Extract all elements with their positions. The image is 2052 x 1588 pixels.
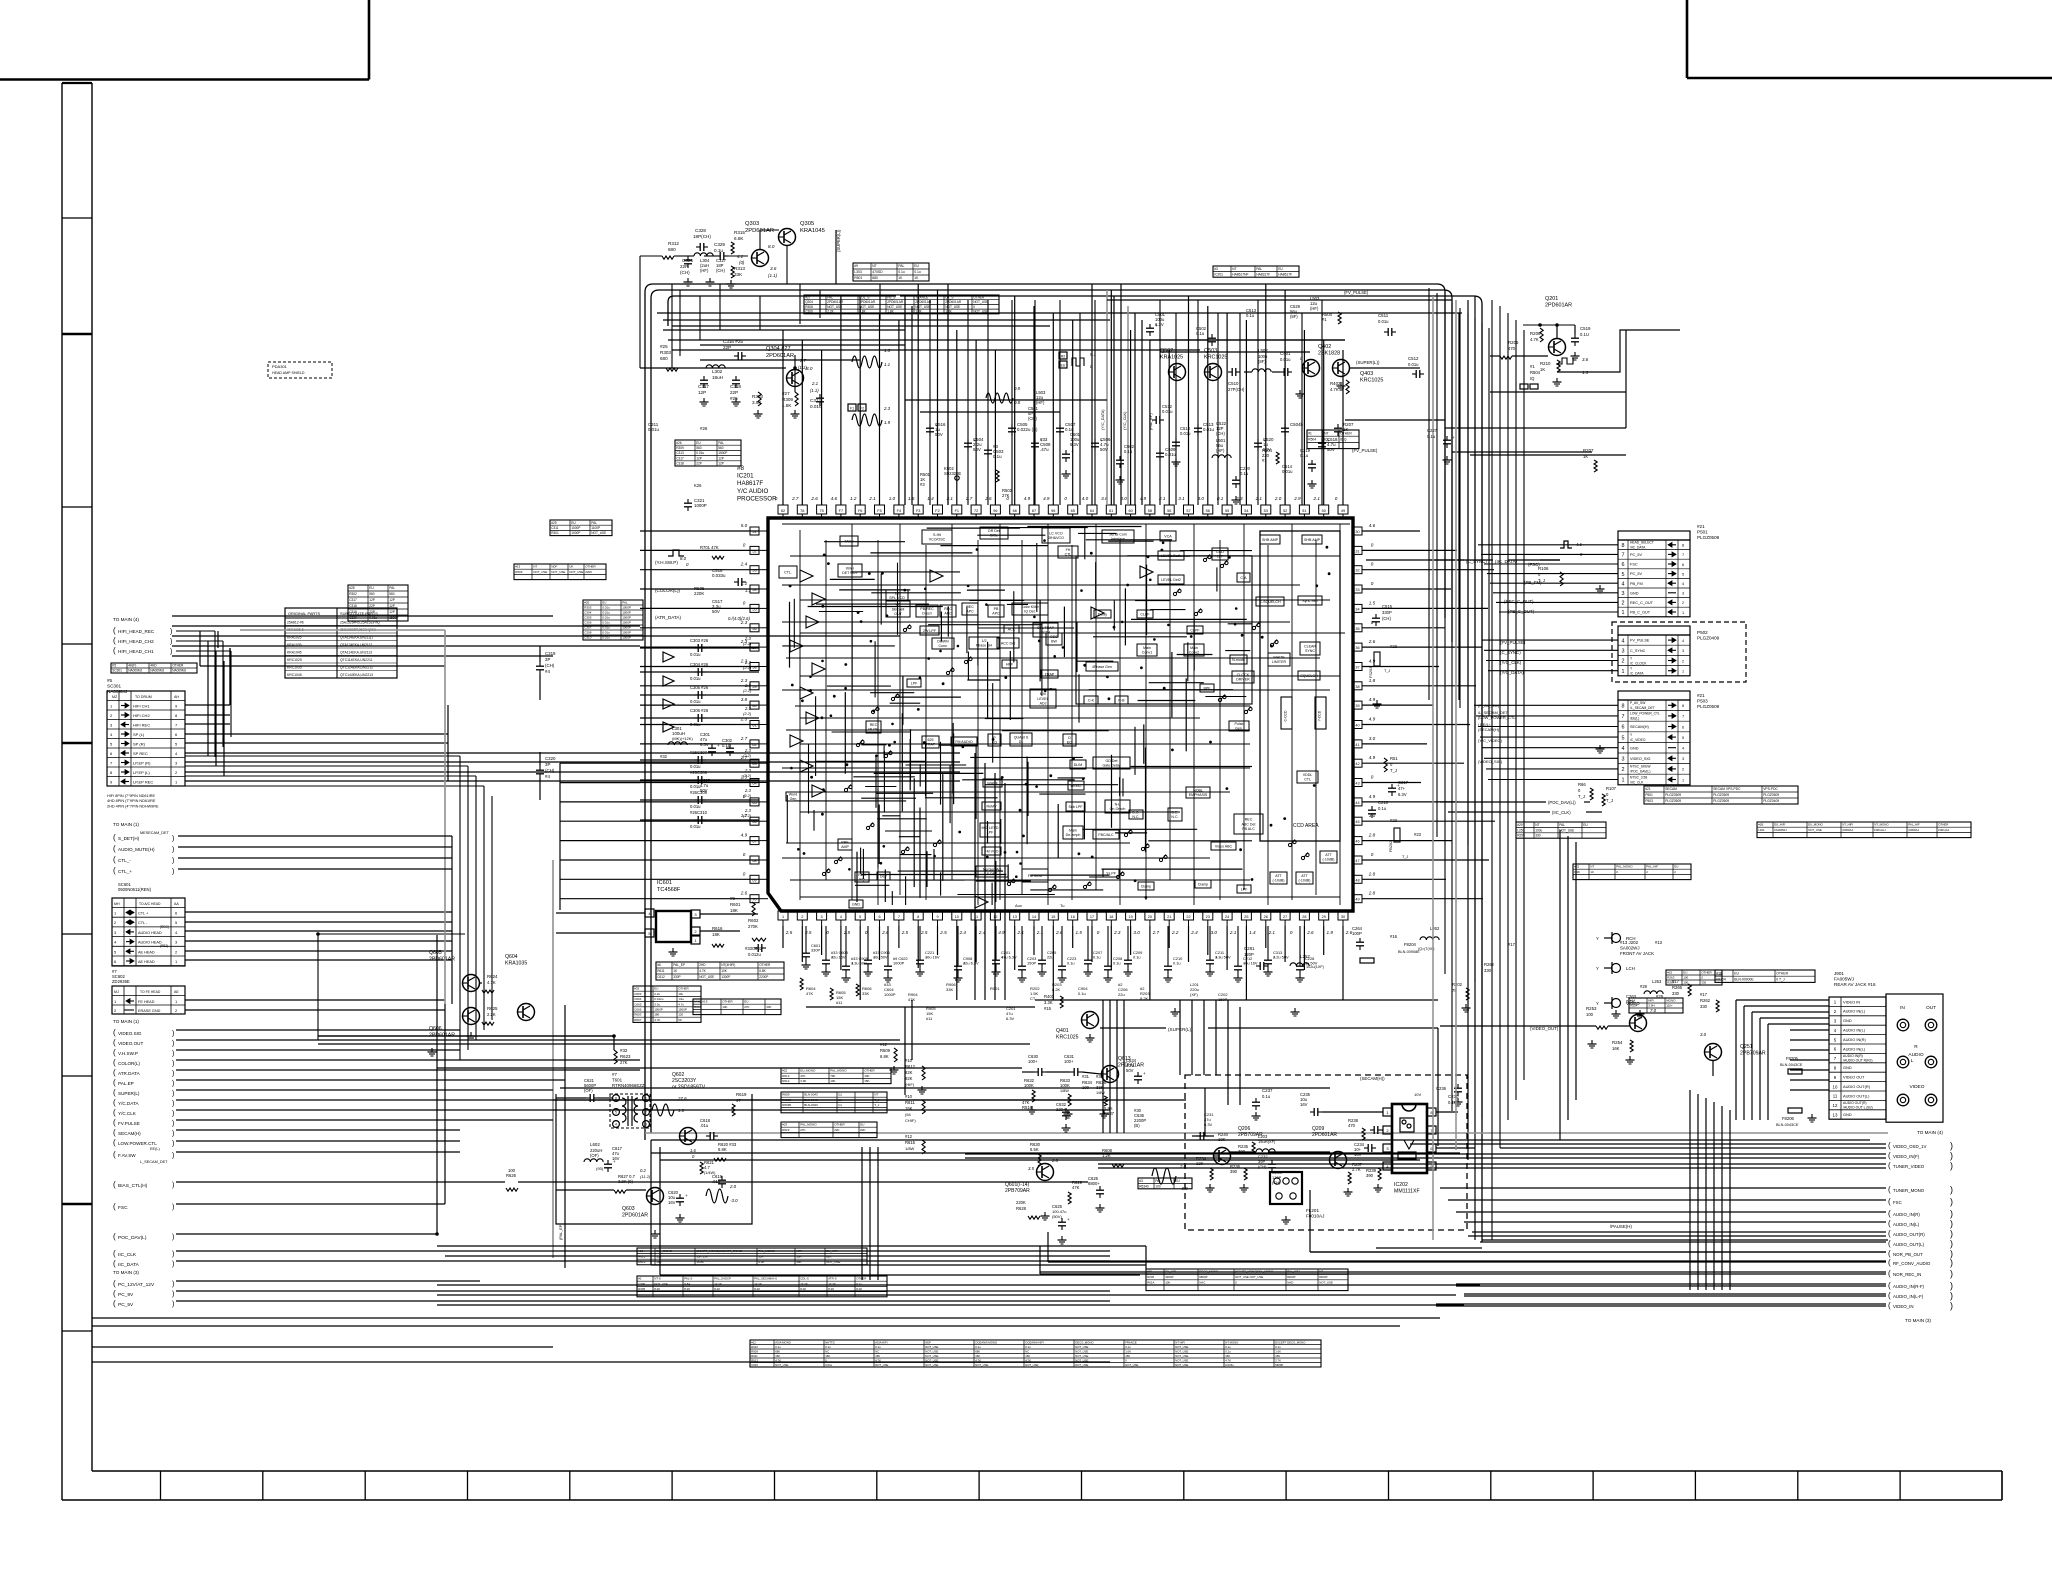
svg-text:C328: C328 [695, 228, 706, 233]
svg-text:#29: #29 [1656, 994, 1664, 999]
svg-text:100+: 100+ [1028, 1059, 1038, 1064]
svg-text:(: ( [113, 1078, 116, 1087]
svg-text:(FV_PULSE): (FV_PULSE) [1500, 640, 1526, 645]
svg-text:3.8: 3.8 [741, 697, 748, 702]
svg-text:R612: R612 [638, 1260, 646, 1264]
svg-text:15K: 15K [1275, 1354, 1280, 1358]
svg-text:2: 2 [1682, 601, 1684, 605]
table #1B wide right [1757, 822, 1971, 838]
svg-text:): ) [172, 1111, 174, 1118]
svg-text:1/8W: 1/8W [1096, 1091, 1105, 1095]
svg-text:#26: #26 [700, 426, 708, 431]
internal amplifiers [790, 566, 1153, 908]
svg-text:LP,EP (R): LP,EP (R) [133, 761, 151, 766]
svg-text:KRC1045: KRC1045 [287, 673, 302, 677]
svg-text:15K: 15K [905, 1106, 913, 1111]
svg-text:KRA1025: KRA1025 [1160, 355, 1183, 361]
svg-text:(CH): (CH) [545, 768, 555, 773]
svg-text:(1.1): (1.1) [768, 273, 778, 278]
svg-text:22u: 22u [1047, 955, 1054, 960]
svg-text:NOT_USE NOT_USE: NOT_USE NOT_USE [1235, 1275, 1263, 1279]
svg-text:100: 100 [1683, 981, 1688, 985]
svg-text:(: ( [1888, 1141, 1891, 1150]
svg-text:56: 56 [1206, 509, 1210, 513]
svg-text:OTHER: OTHER [678, 987, 689, 991]
svg-text:3.3K: 3.3K [758, 1260, 764, 1264]
transistor Q602 [652, 1072, 747, 1203]
svg-text:19: 19 [1128, 915, 1132, 919]
svg-text:REC: REC [870, 723, 878, 727]
svg-text:#32: #32 [620, 1048, 628, 1053]
svg-text:(OF): (OF) [584, 1088, 593, 1093]
svg-text:8.0: 8.0 [680, 556, 687, 561]
svg-text:P501: P501 [1645, 793, 1653, 797]
svg-text:): ) [172, 1182, 174, 1189]
svg-text:3: 3 [1622, 591, 1625, 597]
svg-text:HIFI 8PIN (7"9PIN ND61IRE: HIFI 8PIN (7"9PIN ND61IRE [107, 794, 155, 798]
svg-text:TUNER_VIDEO: TUNER_VIDEO [1893, 1164, 1925, 1169]
svg-text:R504: R504 [1308, 438, 1316, 442]
svg-text:CHIF): CHIF) [905, 1118, 916, 1123]
svg-text:PC_5V: PC_5V [1630, 572, 1642, 576]
svg-text:OTHER: OTHER [834, 1123, 845, 1127]
svg-text:1.8K: 1.8K [945, 310, 952, 314]
svg-text:(: ( [113, 1038, 116, 1047]
svg-text:OUT: OUT [894, 612, 902, 616]
svg-text:#26C310: #26C310 [690, 810, 708, 815]
svg-text:2.1: 2.1 [1229, 930, 1237, 935]
wires from IC left pins [640, 531, 759, 899]
svg-text:NDF: NDF [551, 565, 557, 569]
svg-text:): ) [172, 1291, 174, 1298]
svg-text:0.01u: 0.01u [1165, 452, 1177, 457]
svg-text:(: ( [1888, 1209, 1891, 1218]
svg-text:R613: R613 [782, 1074, 790, 1078]
svg-text:7: 7 [1682, 553, 1684, 557]
table #26 values [675, 440, 741, 466]
svg-text:(PAL_EP): (PAL_EP) [559, 1223, 563, 1240]
svg-text:47K: 47K [806, 991, 813, 996]
svg-text:NOR_PB_OUT: NOR_PB_OUT [1893, 1252, 1923, 1257]
svg-text:3.3u 50V: 3.3u 50V [1215, 955, 1231, 960]
connector SC301 MZ/TO DRUM table [107, 691, 185, 786]
TO MAIN (1) signal list [113, 1019, 174, 1164]
svg-text:76: 76 [800, 509, 804, 513]
svg-text:#21: #21 [1697, 693, 1705, 698]
option table #12 bottom [750, 1340, 1321, 1367]
svg-text:1000P: 1000P [893, 961, 905, 966]
svg-text:Q604: Q604 [505, 954, 518, 960]
svg-text:): ) [1950, 1209, 1953, 1219]
svg-text:LP,EP (L): LP,EP (L) [133, 770, 150, 775]
svg-text:C511: C511 [1378, 313, 1389, 318]
svg-text:0: 0 [743, 542, 746, 547]
svg-text:79K: 79K [830, 1074, 835, 1078]
svg-text:S02320E: S02320E [944, 471, 961, 476]
svg-text:TO FE HEAD: TO FE HEAD [140, 990, 161, 994]
svg-text:TO MAIN (3): TO MAIN (3) [1905, 1318, 1931, 1323]
svg-text:NA009MJ: NA009MJ [150, 669, 164, 673]
svg-text:C305: C305 [584, 616, 592, 620]
svg-text:1: 1 [782, 915, 784, 919]
lower-left power connectors [113, 1180, 174, 1308]
svg-text:(1): (1) [838, 1103, 842, 1107]
svg-text:33: 33 [1355, 588, 1359, 592]
svg-text:(: ( [1888, 1258, 1891, 1267]
svg-text:(-10dB): (-10dB) [1273, 879, 1285, 883]
svg-text:HA8617NF: HA8617NF [1232, 273, 1248, 277]
svg-text:8.0: 8.0 [806, 366, 813, 371]
svg-text:F8206: F8206 [1782, 1116, 1795, 1121]
svg-text:NOT_USE: NOT_USE [1025, 1363, 1038, 1367]
svg-text:40: 40 [1355, 724, 1359, 728]
svg-text:102u(1XF): 102u(1XF) [1306, 965, 1325, 969]
svg-text:0500N0611(REN): 0500N0611(REN) [118, 887, 152, 892]
svg-text:): ) [1950, 1258, 1953, 1268]
svg-text:3: 3 [1622, 757, 1625, 763]
R624 R625 [316, 932, 517, 1056]
svg-text:OTHER: OTHER [759, 963, 771, 967]
svg-text:0.1u: 0.1u [1124, 449, 1133, 454]
svg-text:0.1u: 0.1u [1378, 806, 1387, 811]
svg-text:0.033u: 0.033u [712, 573, 726, 578]
IC IC202 MM1111XF [1300, 1086, 1447, 1194]
svg-text:4: 4 [1622, 581, 1625, 587]
svg-text:#1: #1 [1308, 431, 1312, 435]
svg-text:2.1: 2.1 [1158, 496, 1166, 501]
svg-text:DLIM: DLIM [1074, 763, 1083, 767]
svg-text:R205: R205 [1508, 340, 1519, 345]
svg-text:C306: C306 [584, 621, 592, 625]
svg-text:47: 47 [1355, 859, 1359, 863]
svg-text:0.1U: 0.1U [1580, 332, 1589, 337]
svg-text:(A1Q,A19: (A1Q,A19 [694, 1000, 708, 1004]
transistor Q502 [1160, 348, 1186, 381]
svg-text:OTHER: OTHER [1938, 823, 1948, 827]
svg-text:0.1u: 0.1u [875, 1345, 881, 1349]
svg-text:12P: 12P [718, 456, 724, 460]
svg-text:IN: IN [1900, 1005, 1905, 1011]
svg-text:Q304: Q304 [805, 300, 813, 304]
svg-text:R601: R601 [730, 902, 741, 907]
svg-text:4HD 8PIN (7"9PIN ND61IRE: 4HD 8PIN (7"9PIN ND61IRE [107, 799, 156, 803]
svg-text:0.1u: 0.1u [1246, 313, 1255, 318]
svg-text:C317: C317 [349, 598, 357, 602]
svg-text:RTRN40966EZZ: RTRN40966EZZ [612, 1083, 645, 1088]
svg-text:(: ( [1888, 1281, 1891, 1290]
svg-text:5.1: 5.1 [1090, 352, 1097, 357]
svg-text:): ) [172, 1121, 174, 1128]
svg-text:2.2K: 2.2K [827, 310, 834, 314]
svg-text:10K: 10K [721, 969, 728, 973]
svg-text:(Y/C_DATA): (Y/C_DATA) [1101, 409, 1105, 430]
TO MAIN (4) right bracket labels [1888, 1130, 1953, 1171]
svg-text:(HF): (HF) [1216, 448, 1225, 453]
svg-text:15: 15 [1051, 915, 1055, 919]
svg-text:): ) [172, 1141, 174, 1148]
svg-text:T_J: T_J [1606, 798, 1613, 803]
svg-text:PB_FM: PB_FM [1630, 582, 1643, 586]
wire more interior segments [790, 527, 1253, 903]
svg-text:ZD2936E: ZD2936E [112, 979, 130, 984]
svg-text:FSC: FSC [1893, 1200, 1902, 1205]
svg-text:0.01u: 0.01u [602, 631, 610, 635]
svg-text:OTHER: OTHER [856, 1277, 866, 1281]
svg-text:C605: C605 [634, 1002, 642, 1006]
svg-text:(: ( [113, 646, 116, 655]
svg-text:3.0: 3.0 [1700, 1032, 1707, 1037]
svg-text:3.3K: 3.3K [1044, 1000, 1053, 1005]
svg-text:1100P: 1100P [591, 526, 600, 530]
svg-text:T_J: T_J [1390, 768, 1397, 773]
svg-text:KRC1025: KRC1025 [1360, 378, 1383, 384]
svg-text:#12: #12 [751, 1340, 756, 1344]
svg-text:OUT: OUT [1926, 1005, 1936, 1011]
svg-text:(HF): (HF) [1310, 306, 1319, 311]
svg-text:0.01u: 0.01u [602, 606, 610, 610]
svg-text:(1): (1) [838, 1093, 842, 1097]
svg-text:(: ( [1888, 1161, 1891, 1170]
svg-text:6.8K: 6.8K [759, 969, 766, 973]
svg-text:): ) [1950, 1161, 1953, 1171]
svg-text:BLN-00900E: BLN-00900E [1734, 978, 1754, 982]
svg-text:#30: #30 [1147, 1270, 1152, 1274]
svg-text:MH: MH [114, 902, 120, 906]
svg-text:Q503: Q503 [1204, 348, 1217, 354]
svg-text:/IIC_CLK: /IIC_CLK [1630, 780, 1644, 784]
svg-text:HA8317F: HA8317F [1256, 273, 1270, 277]
svg-text:VCA: VCA [1164, 534, 1172, 538]
svg-text:0.1u: 0.1u [975, 1345, 981, 1349]
svg-text:0: 0 [1290, 930, 1293, 935]
svg-text:32: 32 [1355, 569, 1359, 573]
svg-text:F0010AJ: F0010AJ [1306, 1214, 1324, 1219]
svg-text:0 T_J: 0 T_J [1776, 978, 1785, 982]
svg-text:0.01u: 0.01u [602, 611, 610, 615]
svg-text:EU: EU [1061, 364, 1066, 368]
svg-text:VIDEO IN: VIDEO IN [1843, 999, 1860, 1004]
transformer T601 [610, 1072, 650, 1128]
svg-text:15K: 15K [975, 1354, 980, 1358]
svg-text:2PD601AR: 2PD601AR [622, 1212, 648, 1218]
svg-text:EU_MONO: EU_MONO [800, 1069, 816, 1073]
svg-text:BLN-0043CE: BLN-0043CE [1776, 1123, 1799, 1127]
svg-text:CTL -: CTL - [138, 921, 148, 925]
svg-text:+: + [685, 1193, 688, 1198]
svg-text:(: ( [113, 1202, 116, 1211]
svg-text:1: 1 [1682, 611, 1684, 615]
svg-text:220+: 220+ [1056, 1107, 1066, 1112]
svg-text:R6095: R6095 [782, 1103, 791, 1107]
svg-text:T_J: T_J [874, 1103, 880, 1107]
svg-text:NTSC_3.58: NTSC_3.58 [1630, 775, 1647, 779]
svg-text:C227: C227 [1427, 428, 1438, 433]
svg-text:1/8W: 1/8W [1060, 1089, 1069, 1093]
svg-text:PAL_HIFI: PAL_HIFI [1287, 1270, 1300, 1274]
svg-text:PAL_MONO: PAL_MONO [830, 1069, 847, 1073]
svg-text:PAL: PAL [591, 521, 597, 525]
svg-text:#13: #13 [1655, 940, 1663, 945]
svg-text:DECO_MONO: DECO_MONO [1199, 1270, 1219, 1274]
svg-text:100+: 100+ [1064, 1059, 1074, 1064]
svg-text:18K: 18K [730, 908, 738, 913]
svg-text:EU_HIFI: EU_HIFI [1774, 823, 1785, 827]
svg-text:AUDIO_IN(L-F): AUDIO_IN(L-F) [1893, 1294, 1924, 1299]
svg-text:4.9: 4.9 [741, 833, 748, 838]
svg-text:#13: #13 [515, 565, 520, 569]
svg-text:3.9K (0): 3.9K (0) [618, 1179, 634, 1184]
svg-text:ADJ: ADJ [1040, 702, 1047, 706]
svg-text:PAL: PAL [1256, 267, 1262, 271]
svg-text:(: ( [113, 1068, 116, 1077]
svg-text:AUDIO IN(R): AUDIO IN(R) [1843, 1054, 1863, 1058]
wire J901 feed bundle [1690, 1090, 1730, 1290]
svg-text:0.01u: 0.01u [825, 1363, 832, 1367]
svg-text:CLEAR: CLEAR [1304, 644, 1316, 648]
svg-text:D: D [1068, 736, 1071, 740]
svg-text:/EE(L): /EE(L) [1630, 717, 1639, 721]
svg-text:PAL_MONO: PAL_MONO [1616, 865, 1633, 869]
svg-text:0.1u: 0.1u [1300, 453, 1309, 458]
svg-text:2: 2 [1622, 659, 1625, 665]
svg-text:10u 50V: 10u 50V [873, 955, 888, 960]
svg-text:ORIGINAL PARTS: ORIGINAL PARTS [288, 611, 321, 616]
svg-text:1000P: 1000P [622, 606, 631, 610]
svg-text:NT: NT [1232, 267, 1236, 271]
svg-text:PAL: PAL [1559, 823, 1565, 827]
svg-text:4.7K: 4.7K [699, 969, 706, 973]
svg-text:(B): (B) [1134, 1123, 1140, 1128]
svg-text:#33: #33 [634, 987, 639, 991]
svg-text:0: 0 [1064, 496, 1067, 501]
svg-text:(: ( [113, 1058, 116, 1067]
svg-text:PAL_EP: PAL_EP [673, 963, 685, 967]
svg-text:F6: F6 [858, 509, 862, 513]
svg-text:EU_MONO: EU_MONO [1808, 823, 1823, 827]
svg-text:): ) [172, 847, 174, 854]
svg-text:(2.2): (2.2) [743, 641, 752, 646]
svg-text:12P: 12P [369, 598, 375, 602]
svg-text:R266: R266 [1672, 985, 1683, 990]
svg-text:SP REC: SP REC [133, 751, 148, 756]
svg-text:NT HIFI: NT HIFI [1175, 1340, 1185, 1344]
svg-text:4HD: 4HD [150, 664, 157, 668]
svg-text:3.5: 3.5 [1028, 1166, 1035, 1171]
svg-text:(SCART_MONO)2SCART_MONO: (SCART_MONO)2SCART_MONO [696, 1249, 743, 1253]
svg-text:FE HEAD: FE HEAD [138, 1000, 155, 1004]
svg-text:680: 680 [872, 276, 878, 280]
svg-text:#10: #10 [638, 1249, 643, 1253]
svg-text:C230: C230 [1448, 1094, 1459, 1099]
svg-text:PAL_HIF: PAL_HIF [1908, 823, 1920, 827]
svg-text:41: 41 [1355, 743, 1359, 747]
svg-text:+: + [1452, 435, 1455, 440]
svg-text:(: ( [113, 1180, 116, 1189]
wire IC interior extra segments [782, 527, 1252, 905]
TO MAIN (3) right bracket labels lower [1610, 1185, 1953, 1323]
svg-text:NT: NT [1590, 865, 1594, 869]
svg-text:KRC1025: KRC1025 [1056, 1034, 1079, 1040]
svg-text:AUDIO OUT(R): AUDIO OUT(R) [1843, 1084, 1871, 1089]
C621 input cap [556, 1078, 612, 1102]
svg-text:): ) [170, 629, 172, 636]
svg-text:3: 3 [1682, 649, 1684, 653]
svg-text:NT: NT [1324, 431, 1328, 435]
svg-text:R611: R611 [657, 969, 665, 973]
svg-text:): ) [172, 836, 174, 843]
svg-text:51: 51 [1302, 509, 1306, 513]
svg-text:(: ( [1888, 1197, 1891, 1206]
table #29 right [1516, 822, 1606, 838]
P50x option table [1644, 786, 1798, 804]
svg-text:0.1u: 0.1u [825, 1345, 831, 1349]
svg-text:EE(L): EE(L) [150, 1147, 160, 1151]
table #28 values left [348, 585, 408, 621]
svg-text:(FSC): (FSC) [1528, 562, 1540, 567]
fuse F8206 [1776, 1108, 1817, 1127]
svg-text:2.4: 2.4 [959, 930, 967, 935]
svg-text:6: 6 [1622, 562, 1625, 568]
svg-text:R701 47K: R701 47K [700, 545, 719, 550]
svg-text:8: 8 [1682, 544, 1684, 548]
svg-text:Interface: Interface [1111, 537, 1125, 541]
svg-text:44: 44 [1355, 801, 1359, 805]
svg-text:R911: R911 [751, 1354, 758, 1358]
svg-text:AUDIO_OUT(L): AUDIO_OUT(L) [1893, 1242, 1925, 1247]
svg-text:IQ Det.: IQ Det. [1024, 610, 1035, 614]
svg-text:1K: 1K [914, 276, 919, 280]
table #22 right [1573, 864, 1691, 880]
svg-text:(IIC_CLK): (IIC_CLK) [1552, 810, 1571, 815]
svg-text:0: 0 [743, 852, 746, 857]
svg-text:1.0: 1.0 [678, 1108, 685, 1113]
svg-text:30: 30 [1355, 530, 1359, 534]
C511 C512 C513 caps right top [1146, 290, 1597, 472]
svg-text:2.2u: 2.2u [654, 992, 660, 996]
svg-text:36: 36 [1355, 646, 1359, 650]
svg-text:-3.0: -3.0 [730, 1198, 738, 1203]
svg-text:): ) [172, 1071, 174, 1078]
svg-text:50V: 50V [1126, 1068, 1134, 1073]
svg-text:NOT_USE: NOT_USE [1319, 1281, 1333, 1285]
svg-text:C604: C604 [634, 997, 642, 1001]
svg-text:Y/C.CLK: Y/C.CLK [118, 1111, 137, 1116]
svg-text:(: ( [113, 1138, 116, 1147]
svg-text:PC_5V: PC_5V [118, 1302, 134, 1308]
svg-text:#2: #2 [638, 1277, 642, 1281]
head wiring from connectors [176, 631, 1110, 1301]
svg-text:61: 61 [1109, 509, 1113, 513]
svg-text:N.C.: N.C. [1132, 815, 1139, 819]
svg-text:Conv1: Conv1 [1142, 651, 1152, 655]
svg-text:APC: APC [966, 610, 974, 614]
svg-text:470: 470 [1508, 346, 1516, 351]
svg-text:AUDIO OUT(L): AUDIO OUT(L) [1843, 1093, 1870, 1098]
svg-text:3: 3 [645, 1123, 647, 1127]
transistor Q613 cluster [1022, 1054, 1146, 1132]
svg-text:1.6K: 1.6K [1125, 1349, 1131, 1353]
svg-text:C308: C308 [584, 631, 592, 635]
svg-text:ATT: ATT [1325, 853, 1332, 857]
svg-text:13: 13 [1013, 915, 1017, 919]
svg-text:7.0: 7.0 [1650, 1008, 1657, 1013]
svg-text:#3: #3 [1214, 267, 1218, 271]
svg-text:2.5: 2.5 [843, 930, 851, 935]
svg-text:P503: P503 [1645, 799, 1653, 803]
svg-text:(SUPER(L)): (SUPER(L)) [836, 229, 841, 252]
transistor Q603 [556, 1094, 752, 1238]
svg-text:82K: 82K [905, 1070, 913, 1075]
